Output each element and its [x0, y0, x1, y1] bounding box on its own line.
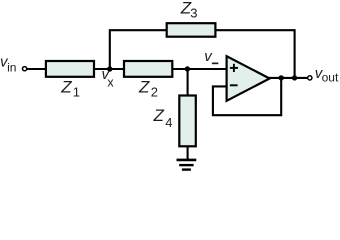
- label vin: [0, 53, 16, 74]
- svg-text:3: 3: [190, 6, 197, 21]
- wire input to Z1: [27, 68, 46, 70]
- wire Z1 to Z2: [95, 68, 124, 70]
- ground: [177, 160, 197, 170]
- wire Z2 to op-amp: [173, 68, 227, 70]
- wire node down to Z4: [187, 69, 189, 95]
- label v-minus: [204, 48, 218, 65]
- svg-text:x: x: [107, 75, 114, 89]
- wire op-amp output: [268, 77, 308, 79]
- svg-text:2: 2: [151, 84, 158, 99]
- svg-text:Z: Z: [60, 77, 72, 96]
- svg-text:in: in: [7, 60, 16, 74]
- node feedback junction: [279, 75, 284, 80]
- svg-text:Z: Z: [153, 106, 165, 125]
- resistor Z4: [179, 96, 196, 147]
- op-amp U1: [227, 56, 270, 101]
- node Z3 junction: [292, 75, 297, 80]
- node Z4 junction: [185, 66, 190, 71]
- svg-text:1: 1: [73, 84, 80, 99]
- svg-text:Z: Z: [138, 77, 150, 96]
- node vin terminal: [23, 67, 27, 71]
- wire Z4 to ground: [187, 146, 189, 159]
- resistor Z2: [124, 61, 172, 77]
- wire riser vx up to feedback rail: [110, 30, 167, 69]
- label Z2: [138, 77, 158, 99]
- resistor Z3: [167, 23, 216, 37]
- wire feedback loop: [213, 78, 281, 115]
- label Z4: [153, 106, 173, 130]
- label vx: [102, 66, 115, 89]
- label Z1: [60, 77, 80, 99]
- node vout terminal: [308, 76, 312, 80]
- svg-text:out: out: [322, 71, 339, 85]
- node vx junction: [107, 66, 112, 71]
- resistor Z1: [46, 61, 94, 77]
- label vout: [315, 65, 339, 85]
- wire Z3 to output node: [217, 30, 295, 78]
- label Z3: [180, 0, 198, 21]
- svg-text:4: 4: [165, 115, 172, 130]
